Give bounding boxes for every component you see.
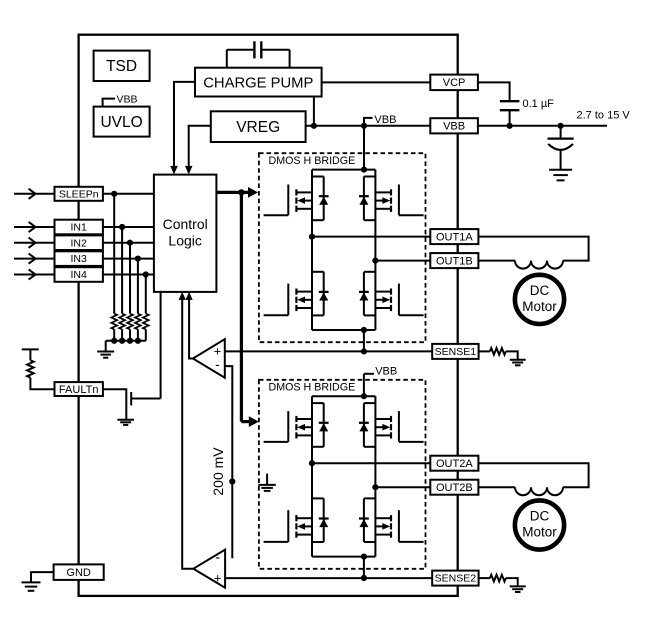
svg-text:IN3: IN3 — [71, 253, 88, 265]
svg-text:UVLO: UVLO — [100, 114, 142, 131]
svg-text:DC: DC — [530, 508, 550, 523]
svg-text:DC: DC — [530, 283, 550, 298]
svg-text:VREG: VREG — [236, 119, 280, 136]
svg-text:FAULTn: FAULTn — [59, 384, 99, 396]
svg-text:TSD: TSD — [106, 58, 137, 75]
svg-text:+: + — [214, 570, 222, 585]
svg-text:SLEEPn: SLEEPn — [59, 188, 99, 200]
svg-text:GND: GND — [66, 567, 91, 579]
svg-text:Control: Control — [163, 216, 208, 232]
svg-text:OUT2B: OUT2B — [436, 482, 473, 494]
svg-text:OUT1A: OUT1A — [436, 231, 473, 243]
svg-text:OUT2A: OUT2A — [436, 458, 473, 470]
svg-text:VBB: VBB — [117, 93, 138, 105]
svg-text:DMOS H BRIDGE: DMOS H BRIDGE — [269, 155, 356, 167]
svg-text:200 mV: 200 mV — [210, 447, 226, 496]
svg-text:Logic: Logic — [168, 233, 201, 249]
svg-text:IN1: IN1 — [71, 222, 88, 234]
svg-text:IN2: IN2 — [71, 237, 88, 249]
svg-text:0.1 µF: 0.1 µF — [523, 98, 555, 110]
svg-text:VCP: VCP — [443, 77, 466, 89]
svg-text:Motor: Motor — [522, 299, 557, 314]
svg-text:-: - — [215, 356, 220, 372]
svg-text:SENSE2: SENSE2 — [435, 573, 477, 585]
svg-text:DMOS H BRIDGE: DMOS H BRIDGE — [269, 382, 356, 394]
svg-text:2.7 to 15 V: 2.7 to 15 V — [577, 110, 631, 122]
svg-text:CHARGE PUMP: CHARGE PUMP — [203, 75, 313, 91]
svg-text:-: - — [215, 549, 220, 565]
svg-text:VBB: VBB — [375, 366, 397, 378]
svg-text:SENSE1: SENSE1 — [435, 346, 477, 358]
svg-text:IN4: IN4 — [71, 269, 88, 281]
svg-text:VBB: VBB — [443, 121, 465, 133]
svg-text:Motor: Motor — [522, 525, 557, 540]
svg-text:VBB: VBB — [374, 114, 396, 126]
svg-text:OUT1B: OUT1B — [436, 255, 473, 267]
